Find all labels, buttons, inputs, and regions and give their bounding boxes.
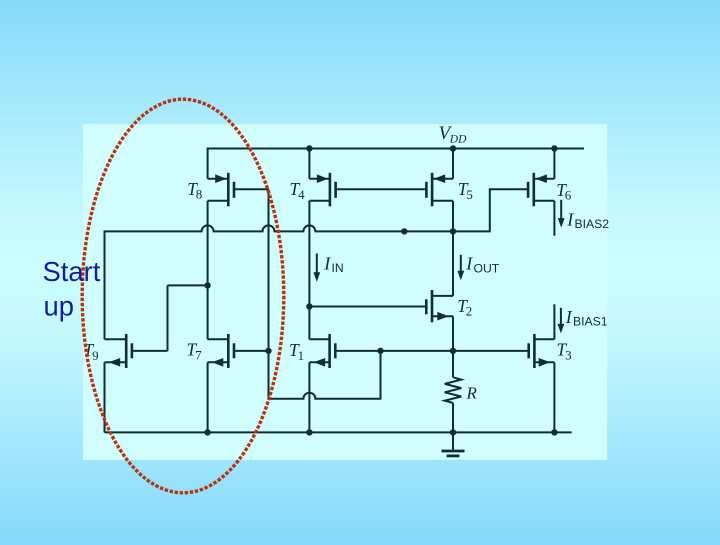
junction dot bus-T5 source <box>450 228 456 234</box>
wire R bottom lead <box>452 403 454 433</box>
svg-text:2: 2 <box>466 304 473 319</box>
transistor T2 <box>426 290 453 322</box>
wire T6 drain riser <box>553 149 555 179</box>
wire T3 source down <box>553 362 555 432</box>
wire T2 gate line <box>309 306 426 308</box>
wire VDD rail <box>208 149 584 179</box>
wire T9 gate lead <box>132 350 168 352</box>
svg-text:OUT: OUT <box>474 261 500 275</box>
svg-text:3: 3 <box>565 347 572 362</box>
wire bias bus with crossover hops <box>105 189 529 339</box>
current arrow IOUT <box>457 255 464 280</box>
wire T5 source to T2 drain column <box>452 201 454 296</box>
resistor R zigzag <box>445 377 462 403</box>
wire T5 drain riser <box>452 149 454 179</box>
transistor T1 <box>309 334 335 368</box>
svg-text:4: 4 <box>298 187 305 202</box>
wire T8 gate lead <box>234 188 269 190</box>
wire T3 drain stub IBIAS1 <box>553 304 555 339</box>
junction dot T8-T7 node <box>204 282 210 288</box>
current arrow IIN <box>313 254 320 282</box>
transistor T9 <box>105 334 132 368</box>
svg-text:IN: IN <box>332 261 344 275</box>
junction dot IIN node <box>306 303 312 309</box>
svg-text:up: up <box>44 291 74 322</box>
wire R top lead <box>452 351 454 377</box>
junction dot bus3-T7 <box>204 429 210 435</box>
transistor T8 <box>208 173 234 207</box>
svg-text:I: I <box>566 209 574 229</box>
junction dot bus3-R <box>450 429 456 435</box>
junction dot VDD-T6 <box>551 145 557 151</box>
wire T7 gate lead <box>234 350 269 352</box>
transistor T4 <box>309 173 335 207</box>
wire T8 drain to T7 drain column <box>207 201 209 339</box>
junction dot VDD-T5 <box>450 145 456 151</box>
svg-text:I: I <box>465 254 473 274</box>
current arrow IBIAS1 <box>558 308 565 334</box>
junction dot bus3-T1 <box>306 429 312 435</box>
junction dot bus-T4T5gate <box>401 228 407 234</box>
svg-text:9: 9 <box>92 348 99 363</box>
wire T2 source down <box>452 316 454 351</box>
startup highlight ellipse <box>82 99 284 493</box>
wire T7 source down <box>207 362 209 432</box>
current arrow IBIAS2 <box>558 200 565 228</box>
wire T4 source to T1 drain column <box>308 201 310 339</box>
svg-text:Start: Start <box>43 256 101 287</box>
svg-text:1: 1 <box>298 348 305 363</box>
wire branch to T9 gate horizontal <box>168 284 208 286</box>
wire T8 gate to T1 gate with hop <box>269 189 381 399</box>
junction dot VDD-T4 <box>306 145 312 151</box>
svg-text:BIAS2: BIAS2 <box>575 217 610 231</box>
svg-text:6: 6 <box>565 188 572 203</box>
svg-text:8: 8 <box>196 187 203 202</box>
svg-text:I: I <box>323 253 331 273</box>
svg-text:7: 7 <box>195 347 202 362</box>
wire ground bus <box>105 431 572 433</box>
svg-text:5: 5 <box>466 187 473 202</box>
transistor T6 <box>528 173 554 207</box>
junction dot bus2-R top <box>450 348 456 354</box>
wire T4 drain riser <box>308 149 310 179</box>
wire gate bus T1-T2-T3 <box>335 350 528 352</box>
svg-text:BIAS1: BIAS1 <box>573 315 608 329</box>
wire T1 source down <box>308 362 310 432</box>
ground <box>442 432 465 456</box>
wire branch to T9 gate vertical <box>167 285 169 351</box>
svg-text:DD: DD <box>449 133 467 145</box>
junction dot T1 gate node <box>377 348 383 354</box>
wire T9 source down <box>104 362 106 432</box>
junction dot T7 gate node <box>265 348 271 354</box>
junction dot bus3-T3 <box>551 429 557 435</box>
svg-text:I: I <box>565 307 573 327</box>
transistor T5 <box>426 173 453 207</box>
wire T6 source stub IBIAS2 <box>553 201 555 236</box>
circuit panel background <box>83 124 607 460</box>
transistor T3 <box>529 334 555 368</box>
wire T4-T5 gate link <box>336 188 427 190</box>
svg-text:R: R <box>466 384 478 403</box>
transistor T7 <box>208 334 234 368</box>
